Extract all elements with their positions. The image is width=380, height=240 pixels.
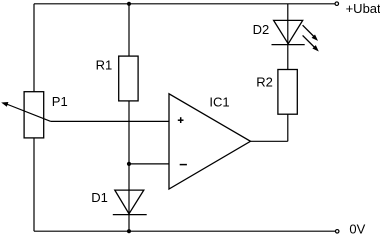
svg-text:P1: P1	[52, 94, 68, 109]
svg-text:D1: D1	[91, 190, 108, 205]
svg-text:0V: 0V	[349, 222, 365, 236]
svg-text:IC1: IC1	[209, 95, 229, 110]
svg-text:+Ubat: +Ubat	[346, 1, 380, 16]
svg-text:R2: R2	[256, 75, 273, 90]
svg-text:D2: D2	[253, 22, 270, 37]
svg-text:R1: R1	[96, 57, 113, 72]
